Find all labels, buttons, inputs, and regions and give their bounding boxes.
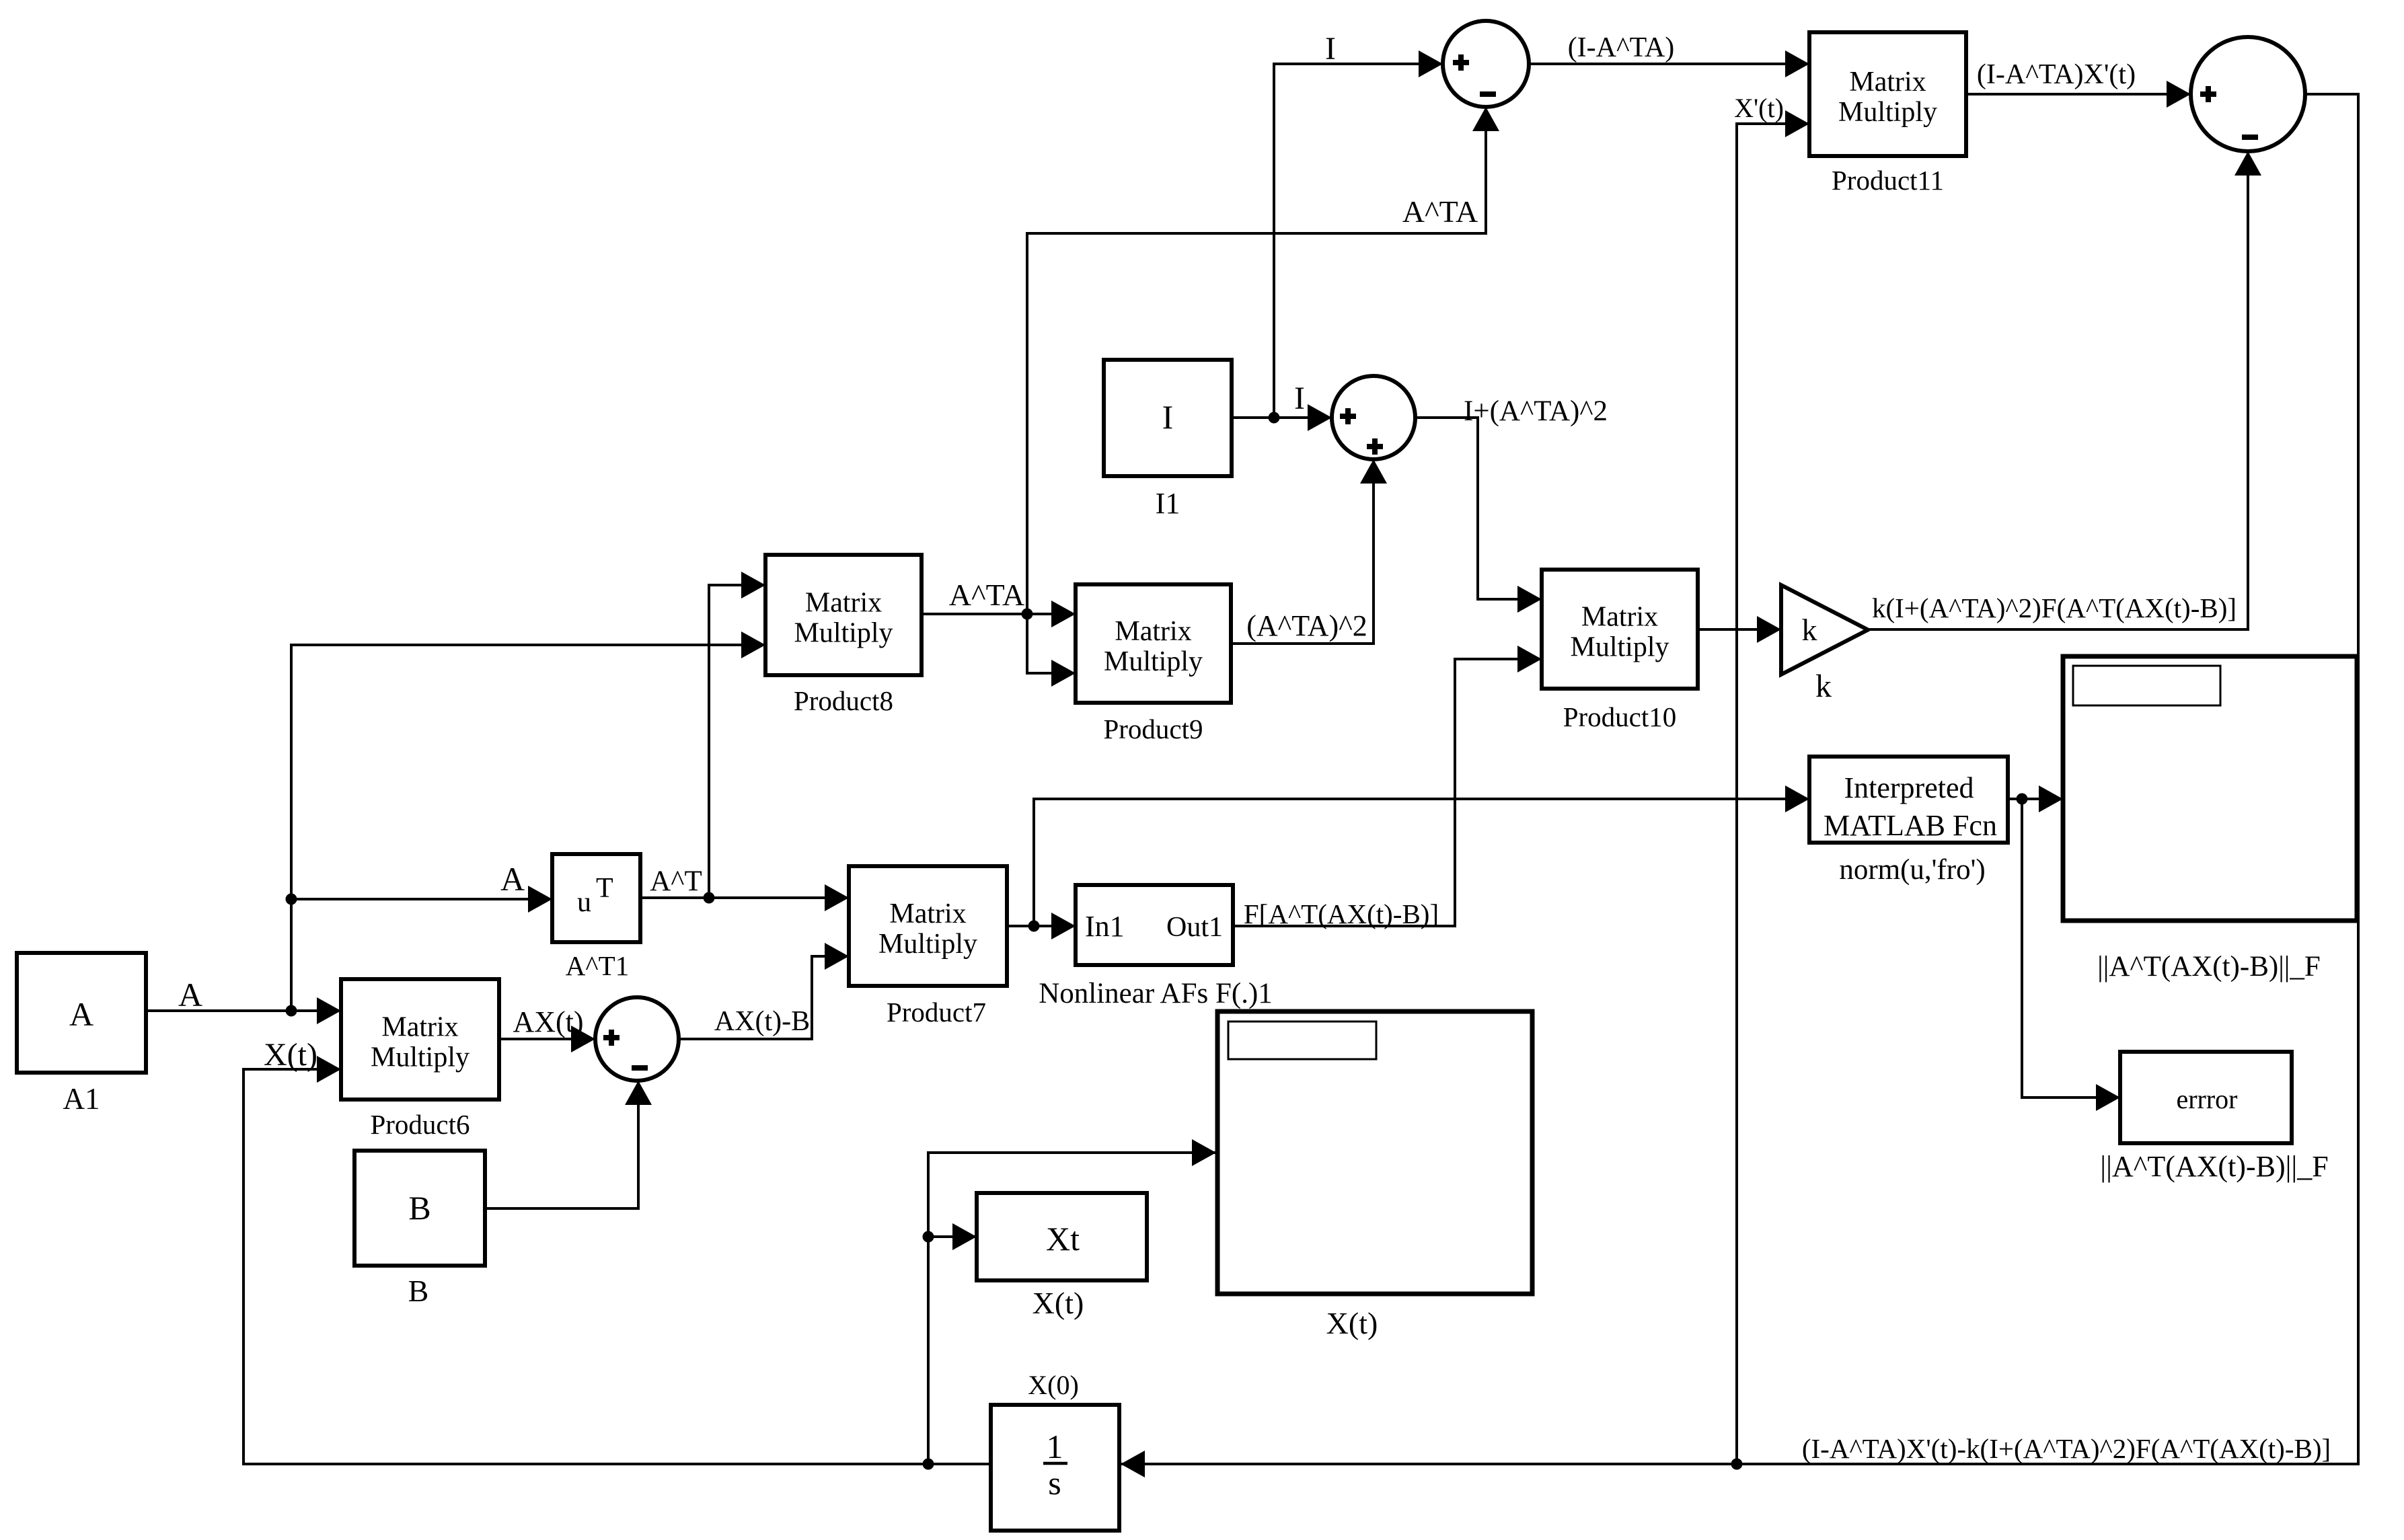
svg-text:norm(u,'fro'): norm(u,'fro') [1839, 854, 1985, 886]
product block Product10 (Matrix Multiply) [1542, 570, 1698, 732]
svg-text:AX(t): AX(t) [513, 1005, 583, 1038]
svg-text:AX(t)-B: AX(t)-B [714, 1006, 810, 1037]
svg-text:k: k [1802, 613, 1817, 647]
svg-text:k(I+(A^TA)^2)F(A^T(AX(t)-B)]: k(I+(A^TA)^2)F(A^T(AX(t)-B)] [1872, 592, 2237, 623]
product block Product11 (Matrix Multiply) [1809, 32, 1966, 196]
wire integrator out left and up to Product6 in2, label X(t) [243, 1037, 991, 1464]
svg-text:A: A [500, 860, 525, 898]
product block Product7 (Matrix Multiply) [849, 866, 1007, 1028]
svg-text:Interpreted: Interpreted [1844, 771, 1974, 804]
node A-split to transpose [286, 894, 297, 905]
svg-text:Multiply: Multiply [371, 1042, 469, 1073]
svg-text:In1: In1 [1085, 910, 1125, 943]
svg-text:Multiply: Multiply [1838, 97, 1937, 128]
svg-text:Matrix: Matrix [805, 588, 882, 619]
svg-text:(I-A^TA)X'(t)-k(I+(A^TA)^2)F(A: (I-A^TA)X'(t)-k(I+(A^TA)^2)F(A^T(AX(t)-B… [1802, 1433, 2331, 1464]
wire Out1 to Product10 in2, label F[A^T(AX(t)-B)] [1233, 646, 1542, 929]
svg-text:Matrix: Matrix [1115, 616, 1191, 647]
svg-text:X(t): X(t) [1032, 1286, 1084, 1320]
node X'(t) tap on bottom rail [1731, 1459, 1743, 1470]
scope block X(t) [1217, 1011, 1532, 1340]
product block Product6 (Matrix Multiply) [341, 979, 499, 1140]
identity source block I1 [1104, 360, 1232, 520]
svg-text:(A^TA)^2: (A^TA)^2 [1246, 609, 1367, 642]
svg-text:||A^T(AX(t)-B)||_F: ||A^T(AX(t)-B)||_F [2097, 951, 2321, 983]
svg-text:1: 1 [1047, 1428, 1063, 1465]
svg-text:A1: A1 [63, 1082, 100, 1116]
wire Product6 out to Sum1 plus input, label AX(t) [499, 1005, 595, 1052]
svg-text:MATLAB Fcn: MATLAB Fcn [1824, 809, 1997, 842]
svg-text:Out1: Out1 [1166, 912, 1223, 943]
svg-text:Product6: Product6 [370, 1109, 469, 1140]
svg-text:Matrix: Matrix [1849, 67, 1926, 98]
svg-text:I1: I1 [1156, 487, 1180, 520]
svg-text:X(0): X(0) [1028, 1370, 1079, 1400]
sum junction Sum4 (output X'(t)) [2191, 37, 2305, 151]
svg-text:Product9: Product9 [1103, 714, 1203, 744]
svg-text:X(t): X(t) [1326, 1306, 1378, 1340]
svg-text:B: B [408, 1189, 430, 1227]
svg-text:Product7: Product7 [887, 997, 986, 1028]
svg-text:(I-A^TA): (I-A^TA) [1568, 32, 1675, 63]
svg-text:(I-A^TA)X'(t): (I-A^TA)X'(t) [1977, 59, 2136, 90]
svg-text:I: I [1294, 381, 1305, 416]
node norm split [2017, 794, 2028, 805]
node A^TA split [1022, 609, 1033, 620]
svg-text:Multiply: Multiply [878, 929, 977, 960]
wire Product11 out to Sum4 plus input, label (I-A^TA)X'(t) [1966, 59, 2191, 108]
node X(t) tap on bottom rail [923, 1459, 934, 1470]
sum junction Sum3 (I-A^TA) [1443, 21, 1529, 107]
scope block ||A^T(AX(t)-B)||_F [2063, 656, 2357, 983]
svg-text:Matrix: Matrix [381, 1012, 458, 1043]
wire Sum3 out to Product11 in1, label (I-A^TA) [1529, 32, 1809, 77]
svg-text:I: I [1325, 31, 1336, 67]
node F-input split [1028, 921, 1040, 932]
wire gain k out to Sum4 bottom minus input, label k(I+(A^TA)^2)F(A^T(AX(t)-B)] [1868, 151, 2261, 629]
wire Sum4 out feedback down and along bottom to integrator input [1121, 94, 2358, 1464]
svg-text:A^T: A^T [650, 865, 702, 897]
wire Product10 out to gain k [1698, 628, 1781, 631]
source block B [354, 1151, 485, 1308]
sum junction Sum1 (AX(t)-B) [595, 997, 679, 1081]
wire Product7 out to In1 [1007, 925, 1076, 927]
svg-text:u: u [577, 887, 591, 918]
svg-text:X(t): X(t) [264, 1037, 317, 1073]
svg-text:A^TA: A^TA [1402, 194, 1478, 229]
wire A1 to Product6 in1, label A [146, 976, 341, 1024]
gain block k [1781, 585, 1868, 704]
product block Product8 (Matrix Multiply) [765, 555, 922, 716]
svg-text:Multiply: Multiply [794, 618, 893, 649]
wire A to A^T1, label A [291, 860, 552, 913]
subsystem block Nonlinear AFs F(.)1 (In1/Out1) [1039, 885, 1273, 1009]
svg-text:I: I [1162, 398, 1174, 436]
wire Product9 out to Sum2 bottom plus input, label (A^TA)^2 [1231, 459, 1387, 644]
source block A1 [17, 953, 146, 1116]
wire Sum1 out to Product7 in2, label AX(t)-B [679, 943, 849, 1039]
svg-text:F[A^T(AX(t)-B)]: F[A^T(AX(t)-B)] [1244, 898, 1439, 929]
wire A rail up to Product8 in2 [291, 645, 765, 1011]
wire MATLAB Fcn out to scope [2008, 798, 2063, 800]
product block Product9 (Matrix Multiply) [1076, 584, 1231, 744]
wire I1 out to Sum2 plus input, label I [1232, 381, 1332, 431]
svg-text:Multiply: Multiply [1104, 646, 1203, 677]
wire A^TA to Product9 in2 [1027, 614, 1076, 673]
output block Xt [977, 1193, 1147, 1320]
svg-text:A^T1: A^T1 [566, 950, 629, 981]
wire norm to error block [2022, 799, 2120, 1098]
wire Sum2 out to Product10 in1, label I+(A^TA)^2 [1415, 395, 1608, 613]
sum junction Sum2 (I+(A^TA)^2) [1332, 376, 1415, 459]
svg-text:errror: errror [2176, 1084, 2237, 1114]
svg-text:Matrix: Matrix [889, 898, 966, 929]
svg-text:||A^T(AX(t)-B)||_F: ||A^T(AX(t)-B)||_F [2100, 1150, 2328, 1183]
svg-text:Product8: Product8 [794, 685, 893, 716]
svg-text:s: s [1048, 1464, 1061, 1502]
Interpreted MATLAB Fcn block norm(u,fro) [1809, 757, 2008, 886]
svg-text:Xt: Xt [1046, 1220, 1080, 1258]
integrator block 1/s [991, 1370, 1119, 1531]
transpose block A^T1 (u^T) [552, 854, 640, 981]
wire A^T1 out to Product7 in1, label A^T [640, 865, 849, 911]
wire X'(t) riser to Product11 in2, label X'(t) [1734, 93, 1809, 1464]
svg-text:A^TA: A^TA [949, 578, 1024, 612]
svg-text:Nonlinear AFs F(.)1: Nonlinear AFs F(.)1 [1039, 978, 1273, 1009]
wire X(t) to Xt block [928, 1235, 977, 1238]
wire A^T riser to Product8 in1 [709, 585, 765, 898]
node I split [1269, 412, 1280, 424]
node X(t) tap to Xt [923, 1231, 934, 1243]
svg-text:X'(t): X'(t) [1734, 93, 1784, 123]
wire Product8 out to Product9 in1, label A^TA [922, 578, 1076, 627]
svg-text:k: k [1815, 668, 1832, 704]
wire F-input riser to Interpreted MATLAB Fcn [1034, 799, 1809, 926]
svg-text:Product10: Product10 [1563, 701, 1677, 732]
wire X(t) riser to scope X(t) [928, 1153, 1216, 1464]
wire A^TA rail up to Sum3 minus input, label A^TA [1027, 107, 1499, 614]
node A-split at Product6 input rail [286, 1005, 297, 1017]
output block error [2100, 1052, 2328, 1183]
svg-text:T: T [596, 873, 613, 904]
wire B out to Sum1 bottom minus input [485, 1081, 638, 1208]
node A^T split [704, 892, 715, 904]
svg-text:Matrix: Matrix [1581, 602, 1658, 633]
svg-text:B: B [408, 1274, 429, 1308]
svg-text:I+(A^TA)^2: I+(A^TA)^2 [1464, 395, 1608, 427]
svg-text:A: A [178, 976, 202, 1013]
svg-text:Multiply: Multiply [1570, 632, 1669, 663]
wire I rail up to Sum3 plus input, label I [1274, 31, 1443, 418]
svg-text:A: A [69, 995, 93, 1033]
svg-text:Product11: Product11 [1832, 165, 1944, 196]
